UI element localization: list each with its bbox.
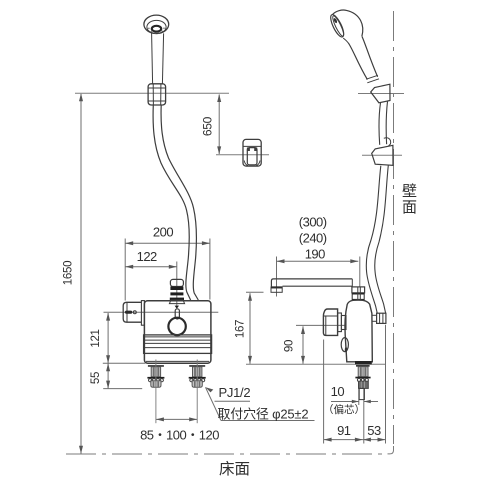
svg-text:（偏芯）: （偏芯） <box>323 403 365 416</box>
svg-text:PJ1/2: PJ1/2 <box>219 385 251 400</box>
svg-text:(300): (300) <box>299 214 327 229</box>
svg-text:190: 190 <box>305 247 325 262</box>
svg-text:85・100・120: 85・100・120 <box>140 427 219 442</box>
svg-text:床面: 床面 <box>219 460 250 478</box>
svg-text:121: 121 <box>90 329 102 347</box>
svg-text:53: 53 <box>367 423 381 438</box>
svg-text:91: 91 <box>337 423 351 438</box>
svg-text:面: 面 <box>402 199 417 216</box>
svg-text:壁: 壁 <box>402 183 417 200</box>
svg-text:90: 90 <box>284 340 296 352</box>
svg-text:(240): (240) <box>299 230 327 245</box>
svg-text:167: 167 <box>235 320 247 338</box>
svg-text:650: 650 <box>201 116 215 136</box>
svg-text:55: 55 <box>90 372 102 384</box>
svg-text:1650: 1650 <box>62 261 74 285</box>
svg-text:200: 200 <box>153 224 173 239</box>
svg-text:10: 10 <box>331 384 345 399</box>
svg-text:取付穴径 φ25±2: 取付穴径 φ25±2 <box>218 407 309 422</box>
svg-text:122: 122 <box>137 249 157 264</box>
